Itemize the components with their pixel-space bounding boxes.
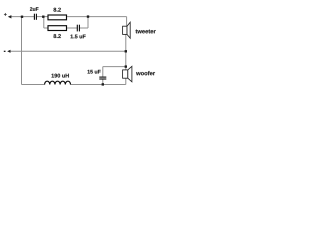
node D dot <box>102 83 104 85</box>
wire split drop <box>43 17 45 28</box>
wire left vertical from plus rail to inductor <box>21 17 23 85</box>
capacitor 1.5uF plates <box>76 25 78 32</box>
node merge dot <box>87 15 89 17</box>
label 1.5 uF <box>71 35 86 39</box>
minus terminal label <box>4 50 6 52</box>
wire node B to node C to woofer <box>125 51 127 70</box>
wire tweeter drop <box>126 17 128 27</box>
node C dot <box>125 65 127 67</box>
wire bottom rail right of inductor <box>71 84 126 86</box>
node junction A <box>21 16 23 18</box>
inductor 190uH <box>45 81 71 84</box>
label woofer <box>136 71 155 75</box>
node B dot <box>125 50 127 52</box>
wire riser up to merge node <box>87 17 89 28</box>
wire lower branch left <box>44 27 48 29</box>
wire bottom rail left of inductor <box>22 84 45 86</box>
label 8.2 top <box>53 8 60 12</box>
plus terminal label <box>4 13 7 16</box>
wire R bottom to cap 1.5uF <box>67 27 78 29</box>
label 2uF <box>30 7 39 11</box>
capacitor 15uF plates <box>99 76 106 78</box>
label tweeter <box>136 30 156 34</box>
wire cap to split node <box>37 16 48 18</box>
input arrow plus <box>8 15 12 18</box>
tweeter speaker <box>123 22 131 38</box>
capacitor 2uF plates <box>33 14 35 20</box>
wire tweeter to minus rail <box>125 34 127 51</box>
wire minus rail <box>10 50 126 52</box>
woofer speaker <box>123 66 132 82</box>
wire top rail right <box>67 16 127 18</box>
wire node C to shunt cap <box>103 66 126 68</box>
wire woofer to bottom rail <box>125 78 127 84</box>
resistor R bottom 8.2 <box>48 26 67 31</box>
wire top rail left <box>11 16 34 18</box>
label 8.2 bottom <box>53 34 60 38</box>
input arrow minus <box>7 50 10 53</box>
label 15 uF <box>88 70 101 74</box>
wire shunt cap to bottom rail <box>102 79 104 85</box>
wire cap 1.5uF to riser <box>80 27 88 29</box>
label 190 uH <box>52 74 69 78</box>
node split dot <box>42 16 44 18</box>
resistor R top 8.2 <box>48 15 67 20</box>
